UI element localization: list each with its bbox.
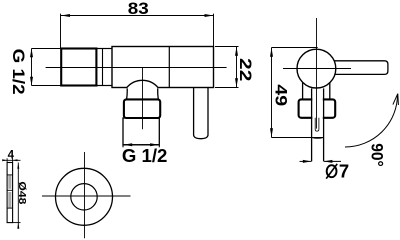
svg-text:G 1/2: G 1/2 xyxy=(122,146,168,166)
svg-text:G 1/2: G 1/2 xyxy=(9,49,27,95)
svg-text:90°: 90° xyxy=(368,143,387,167)
svg-text:22: 22 xyxy=(236,58,255,81)
svg-text:83: 83 xyxy=(128,0,149,18)
svg-text:4: 4 xyxy=(8,149,15,161)
svg-text:Ø48: Ø48 xyxy=(16,181,28,204)
svg-text:7: 7 xyxy=(339,161,349,182)
svg-text:49: 49 xyxy=(271,84,290,106)
